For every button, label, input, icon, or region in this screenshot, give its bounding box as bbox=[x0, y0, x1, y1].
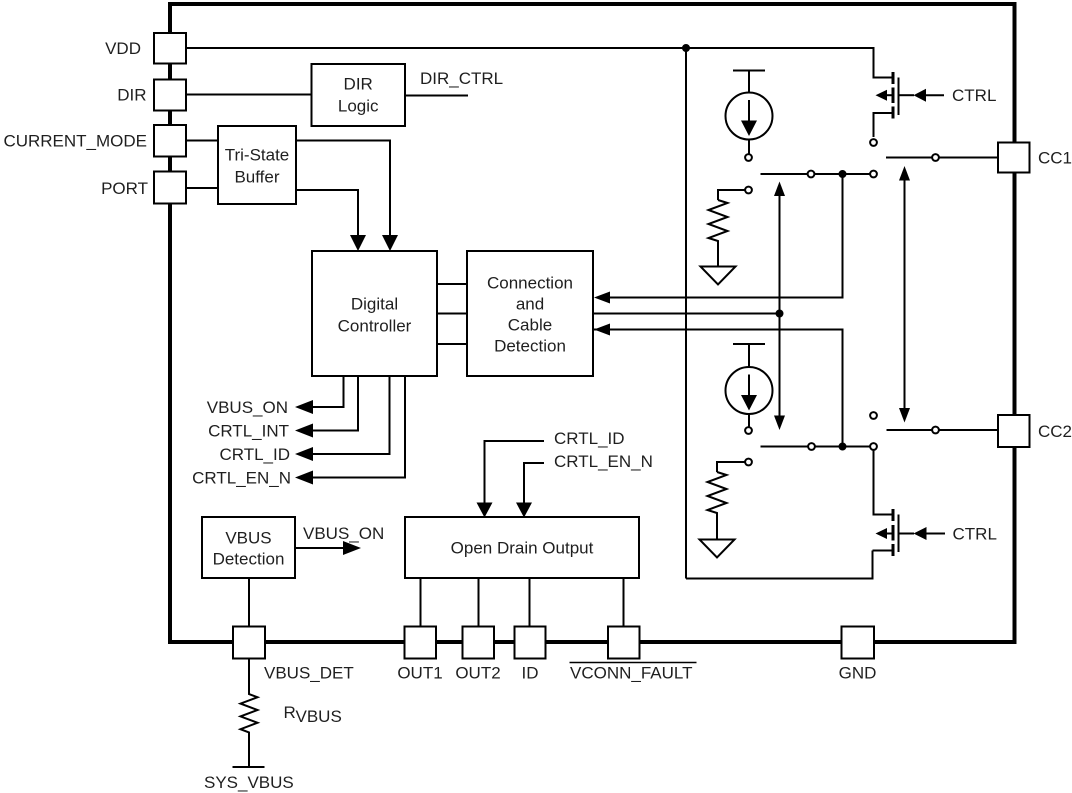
transistor Q1 source dash bbox=[892, 107, 895, 119]
switch contact circle I1 out bbox=[745, 154, 752, 161]
switch contact circle Q1 source bbox=[870, 139, 877, 146]
pin VDD bbox=[154, 33, 186, 64]
wire detection middle line bbox=[593, 313, 780, 315]
svg-text:VDD: VDD bbox=[105, 39, 141, 58]
svg-text:CTRL: CTRL bbox=[953, 525, 997, 544]
svg-text:Logic: Logic bbox=[338, 97, 379, 116]
switch SW1 blade bbox=[761, 173, 808, 175]
arrowhead CRTL_EN_N out bbox=[295, 471, 313, 485]
switch contact circle Rd2 bbox=[745, 459, 752, 466]
wire CRTL_EN_N from Digital Controller bbox=[313, 376, 405, 478]
svg-text:CRTL_ID: CRTL_ID bbox=[554, 429, 625, 448]
svg-text:Tri-State: Tri-State bbox=[225, 146, 290, 165]
switch contact circle CC2 upper bbox=[870, 412, 877, 419]
arrowhead CRTL_EN_N into ODO bbox=[516, 503, 532, 518]
wire VBUS_ON output arrow line bbox=[295, 547, 344, 549]
pin CURRENT_MODE bbox=[154, 125, 186, 157]
current source I2 bbox=[726, 367, 773, 414]
arrowhead double arrow left up bbox=[774, 182, 785, 197]
arrowhead CRTL_ID out bbox=[295, 447, 313, 461]
wire Open Drain Output to OUT2 bbox=[478, 578, 480, 627]
svg-text:CC2: CC2 bbox=[1038, 422, 1072, 441]
arrowhead Q1 body bbox=[876, 90, 888, 101]
arrowhead current source I1 bbox=[741, 121, 757, 137]
svg-text:VBUS_DET: VBUS_DET bbox=[264, 664, 354, 683]
wire VBUS Detection to VBUS_DET pin bbox=[248, 578, 250, 627]
transistor Q1 body dash bbox=[892, 88, 895, 104]
pin PORT bbox=[154, 172, 186, 204]
svg-text:OUT2: OUT2 bbox=[455, 664, 500, 683]
switch SW3 pivot circle bbox=[808, 443, 815, 450]
wire CURRENT_MODE to Tri-State Buffer bbox=[186, 140, 218, 142]
svg-text:SYS_VBUS: SYS_VBUS bbox=[204, 773, 294, 792]
svg-text:DIR: DIR bbox=[344, 75, 373, 94]
resistor RVBUS bbox=[241, 659, 258, 768]
wire to resistor Rd2 bbox=[717, 462, 745, 472]
wire to CC2 pin bbox=[939, 429, 998, 431]
svg-text:Cable: Cable bbox=[508, 316, 552, 335]
pin GND bbox=[842, 627, 875, 659]
resistor Rd2 bbox=[708, 472, 727, 540]
svg-text:CRTL_EN_N: CRTL_EN_N bbox=[192, 469, 291, 488]
switch contact circle I2 out bbox=[745, 427, 752, 434]
wire VBUS_ON from Digital Controller bbox=[313, 376, 344, 407]
svg-text:CRTL_INT: CRTL_INT bbox=[208, 422, 289, 441]
transistor Q2 drain dash bbox=[892, 509, 895, 521]
block Connection and Cable Detection bbox=[467, 251, 593, 376]
switch SW2 blade CC1 bbox=[886, 157, 932, 159]
svg-text:Open Drain Output: Open Drain Output bbox=[451, 539, 594, 558]
wire DIR_CTRL output bbox=[405, 95, 468, 97]
pin OUT2 bbox=[463, 627, 495, 659]
arrowhead into Connection block lower bbox=[594, 324, 610, 336]
pin DIR bbox=[154, 80, 186, 111]
chip outer border bbox=[170, 4, 1015, 642]
double arrow CC1-CC2 right bbox=[904, 179, 906, 411]
arrowhead CTRL 2 bbox=[914, 527, 927, 540]
wire CRTL_EN_N drop into Open Drain Output bbox=[524, 463, 544, 503]
current source I1 top bar bbox=[733, 70, 765, 72]
ground Rd2 bbox=[700, 540, 735, 558]
switch contact circle Rd1 bbox=[745, 187, 752, 194]
wire Tri-State Buffer upper output bbox=[296, 141, 390, 237]
wire I2 top stub bbox=[748, 344, 750, 367]
wire detection lower line to X2 bbox=[593, 330, 843, 443]
block Digital Controller bbox=[312, 251, 437, 376]
wire Open Drain Output to VCONN_FAULT bbox=[623, 578, 625, 627]
arrowhead CRTL_INT out bbox=[295, 424, 313, 438]
svg-text:CURRENT_MODE: CURRENT_MODE bbox=[3, 132, 147, 151]
svg-text:CRTL_ID: CRTL_ID bbox=[219, 445, 290, 464]
wire DIR to DIR Logic bbox=[186, 94, 312, 96]
pin ID bbox=[515, 627, 546, 659]
svg-text:GND: GND bbox=[839, 664, 877, 683]
switch contact circle X1 bbox=[870, 171, 877, 178]
svg-text:OUT1: OUT1 bbox=[397, 664, 442, 683]
switch SW4 pivot circle bbox=[932, 427, 939, 434]
block Open Drain Output bbox=[405, 517, 639, 578]
arrowhead Q2 body bbox=[876, 528, 888, 539]
arrowhead into Digital Controller left bbox=[382, 235, 398, 251]
svg-text:Controller: Controller bbox=[338, 317, 412, 336]
switch SW3 blade bbox=[761, 446, 808, 448]
node SYS_VBUS terminal bar bbox=[233, 766, 265, 768]
wire Tri-State Buffer lower output bbox=[296, 190, 358, 236]
svg-text:CRTL_EN_N: CRTL_EN_N bbox=[554, 452, 653, 471]
wire node X1 bbox=[815, 173, 870, 175]
transistor Q1 gate bar bbox=[898, 78, 900, 116]
svg-text:Buffer: Buffer bbox=[234, 168, 279, 187]
wire X1 down to detection line bbox=[610, 178, 843, 298]
arrowhead double arrow right down bbox=[899, 408, 910, 423]
wire Open Drain Output to OUT1 bbox=[420, 578, 422, 627]
svg-text:Detection: Detection bbox=[494, 337, 566, 356]
arrowhead double arrow right up bbox=[899, 166, 910, 181]
svg-text:ID: ID bbox=[522, 664, 539, 683]
block DIR Logic bbox=[312, 64, 406, 126]
arrowhead CRTL_ID into ODO bbox=[477, 503, 493, 518]
pin OUT1 bbox=[405, 627, 437, 659]
node X2 junction bbox=[840, 444, 846, 450]
transistor Q2 body dash bbox=[892, 525, 895, 541]
transistor Q1 body stub bbox=[887, 94, 893, 96]
transistor Q2 gate lead bbox=[899, 533, 915, 535]
svg-text:Connection: Connection bbox=[487, 274, 573, 293]
wire Digital Controller to Connection middle bbox=[437, 313, 467, 315]
switch SW4 blade CC2 bbox=[887, 429, 932, 431]
switch SW1 pivot circle bbox=[808, 171, 815, 178]
wire Digital Controller to Connection lower bbox=[437, 343, 467, 345]
arrowhead into Digital Controller right bbox=[350, 235, 366, 251]
pin CC2 bbox=[998, 415, 1030, 447]
node on sense line bbox=[777, 311, 783, 317]
switch SW2 pivot circle bbox=[932, 154, 939, 161]
svg-text:DIR: DIR bbox=[117, 86, 146, 105]
wire VDD rail to top FET drain bbox=[186, 48, 892, 78]
transistor Q1 gate lead bbox=[899, 94, 915, 96]
svg-text:R: R bbox=[284, 703, 296, 722]
arrowhead VBUS_ON out bbox=[295, 400, 313, 414]
arrowhead double arrow left down bbox=[774, 416, 785, 431]
node X1 junction bbox=[840, 171, 846, 177]
svg-text:PORT: PORT bbox=[101, 179, 148, 198]
resistor Rd1 bbox=[709, 200, 728, 267]
wire VDD left branch down bbox=[685, 48, 687, 579]
wire CRTL_ID drop into Open Drain Output bbox=[485, 441, 545, 503]
wire I1 top stub bbox=[748, 71, 750, 93]
wire to resistor Rd1 bbox=[718, 190, 745, 200]
svg-text:VBUS_ON: VBUS_ON bbox=[303, 524, 384, 543]
arrowhead VBUS_ON right bbox=[343, 541, 361, 555]
wire PORT to Tri-State Buffer bbox=[186, 187, 218, 189]
current source I2 top bar bbox=[733, 343, 765, 345]
wire Digital Controller to Connection upper bbox=[437, 283, 467, 285]
svg-text:CC1: CC1 bbox=[1038, 149, 1072, 168]
arrowhead CTRL 1 bbox=[914, 89, 927, 102]
block VBUS Detection bbox=[202, 517, 295, 578]
svg-text:and: and bbox=[516, 295, 544, 314]
pin CC1 bbox=[998, 143, 1030, 173]
wire node X2 bbox=[815, 446, 870, 448]
svg-text:VCONN_FAULT: VCONN_FAULT bbox=[570, 664, 693, 683]
svg-text:VBUS: VBUS bbox=[296, 707, 342, 726]
wire Open Drain Output to ID bbox=[529, 578, 531, 627]
transistor Q2 body stub bbox=[887, 533, 893, 535]
transistor Q1 source bbox=[874, 113, 892, 137]
transistor Q2 source bbox=[873, 550, 892, 552]
svg-text:Digital: Digital bbox=[351, 295, 398, 314]
node VDD junction bbox=[683, 45, 689, 51]
wire CTRL 2 bbox=[927, 533, 946, 535]
block Tri-State Buffer bbox=[218, 126, 296, 204]
wire CRTL_INT from Digital Controller bbox=[313, 376, 358, 431]
wire to CC1 pin bbox=[939, 157, 998, 159]
transistor Q2 gate bar bbox=[898, 515, 900, 553]
current source I1 bbox=[726, 93, 773, 140]
switch contact circle X2 bbox=[870, 443, 877, 450]
wire CTRL 1 bbox=[926, 94, 944, 96]
ground Rd1 bbox=[701, 267, 736, 285]
double arrow CC1-CC2 left bbox=[779, 194, 781, 418]
wire X2 to Q2 drain bbox=[874, 450, 892, 514]
overline VCONN_FAULT bbox=[570, 662, 697, 664]
wire CRTL_ID from Digital Controller bbox=[313, 376, 390, 454]
svg-text:CTRL: CTRL bbox=[952, 86, 996, 105]
svg-text:Detection: Detection bbox=[213, 550, 285, 569]
svg-text:VBUS: VBUS bbox=[225, 529, 271, 548]
pin VBUS_DET bbox=[233, 627, 265, 659]
wire bottom rail to lower FET source bbox=[686, 551, 873, 579]
svg-text:DIR_CTRL: DIR_CTRL bbox=[420, 69, 503, 88]
arrowhead into Connection block upper bbox=[594, 292, 610, 304]
transistor Q2 source dash bbox=[892, 544, 895, 556]
arrowhead current source I2 bbox=[741, 395, 757, 411]
transistor Q1 drain dash bbox=[892, 72, 895, 84]
pin VCONN_FAULT bbox=[608, 627, 640, 659]
svg-text:VBUS_ON: VBUS_ON bbox=[207, 398, 288, 417]
